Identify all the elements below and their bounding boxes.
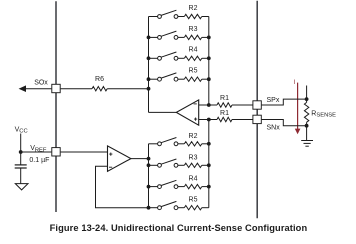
resistor R4 (bottom bank)	[184, 184, 202, 188]
node Rsense bottom	[305, 124, 309, 128]
resistor R1 (top)	[217, 103, 232, 107]
wire: bottom bank left rail	[148, 144, 150, 208]
resistor R3 (top bank)	[184, 35, 202, 39]
junction R6/rail	[147, 87, 151, 91]
svg-text:VCC: VCC	[15, 126, 28, 134]
wire Vref node to pad	[21, 151, 52, 153]
junction	[147, 163, 151, 167]
node Rsense top	[305, 97, 309, 101]
wire: bottom bank right rail	[208, 120, 210, 208]
junction	[207, 36, 211, 40]
junction	[147, 185, 151, 189]
junction	[207, 56, 211, 60]
junction	[147, 36, 151, 40]
junction U1 noninv	[207, 118, 211, 122]
wire R6 to rail	[61, 88, 92, 90]
junction	[147, 77, 151, 81]
svg-text:R1: R1	[220, 95, 229, 102]
resistor R6	[92, 87, 107, 91]
wire: top bank right rail	[208, 17, 210, 106]
wire U2 output to bottom bank rail	[131, 158, 149, 160]
svg-text:R3: R3	[189, 26, 198, 33]
svg-text:SOx: SOx	[34, 79, 48, 86]
pin SPx pad	[253, 101, 261, 109]
resistor R2 (top bank)	[184, 14, 202, 18]
wire: left device rail	[55, 1, 57, 212]
switch row bottom R4	[149, 186, 158, 188]
svg-text:R5: R5	[189, 68, 198, 75]
resistor R5 (top bank)	[184, 77, 202, 81]
wire U1 non-inverting input	[199, 119, 217, 121]
svg-text:RSENSE: RSENSE	[311, 110, 336, 118]
junction U2 out	[147, 157, 151, 161]
switch row top R5	[149, 78, 158, 80]
resistor R3 (bottom bank)	[184, 163, 202, 167]
svg-text:I: I	[294, 80, 296, 86]
resistor RSENSE	[304, 102, 308, 122]
wire SOx output	[25, 88, 52, 90]
svg-text:Figure 13-24. Unidirectional C: Figure 13-24. Unidirectional Current-Sen…	[50, 223, 308, 233]
svg-text:SPx: SPx	[267, 97, 280, 104]
wire Rsense top stub	[306, 86, 308, 103]
ground (earth) below Rsense	[301, 140, 313, 142]
switch row bottom R3	[149, 164, 158, 166]
svg-text:R3: R3	[189, 154, 198, 161]
junction U1 inv	[207, 103, 211, 107]
wire Vcc stub	[20, 134, 22, 153]
wire SPx to Rsense top	[262, 99, 307, 105]
svg-text:R4: R4	[189, 176, 198, 183]
resistor R5 (bottom bank)	[184, 206, 202, 210]
wire U2 feedback	[96, 166, 149, 208]
junction	[207, 163, 211, 167]
svg-text:R2: R2	[189, 133, 198, 140]
wire: top bank left rail	[148, 17, 150, 113]
wire U1 inverting input	[199, 104, 217, 106]
junction feedback	[147, 206, 151, 210]
capacitor C 0.1uF	[20, 152, 22, 165]
wire U1 output to top bank rail	[149, 111, 177, 113]
junction	[207, 185, 211, 189]
svg-text:R1: R1	[220, 110, 229, 117]
svg-text:R6: R6	[95, 76, 104, 83]
switch row bottom R5	[149, 207, 158, 209]
switch row top R4	[149, 57, 158, 59]
svg-text:R4: R4	[189, 47, 198, 54]
pin SNx pad	[253, 115, 261, 123]
junction	[207, 77, 211, 81]
junction	[207, 142, 211, 146]
op-amp U1	[176, 100, 198, 125]
svg-text:R2: R2	[189, 5, 198, 12]
node Vref	[19, 150, 23, 154]
svg-text:0.1 µF: 0.1 µF	[29, 157, 49, 164]
resistor R1 (bottom)	[217, 117, 232, 121]
wire SNx to Rsense bottom	[262, 120, 307, 126]
resistor R2 (bottom bank)	[184, 142, 202, 146]
ground (triangle) below cap	[15, 184, 28, 190]
current arrow I	[295, 83, 301, 135]
wire Vref pad to U2 + input	[61, 151, 108, 153]
svg-text:R5: R5	[189, 197, 198, 204]
resistor R4 (top bank)	[184, 56, 202, 60]
pin SOx pad	[52, 84, 60, 92]
junction	[147, 56, 151, 60]
wire: right device rail	[256, 1, 258, 218]
svg-text:SNx: SNx	[267, 125, 281, 132]
pin VREF pad	[52, 148, 60, 156]
switch row bottom R2	[149, 143, 158, 145]
switch row top R2	[149, 16, 158, 18]
switch row top R3	[149, 36, 158, 38]
op-amp U2	[108, 146, 131, 171]
